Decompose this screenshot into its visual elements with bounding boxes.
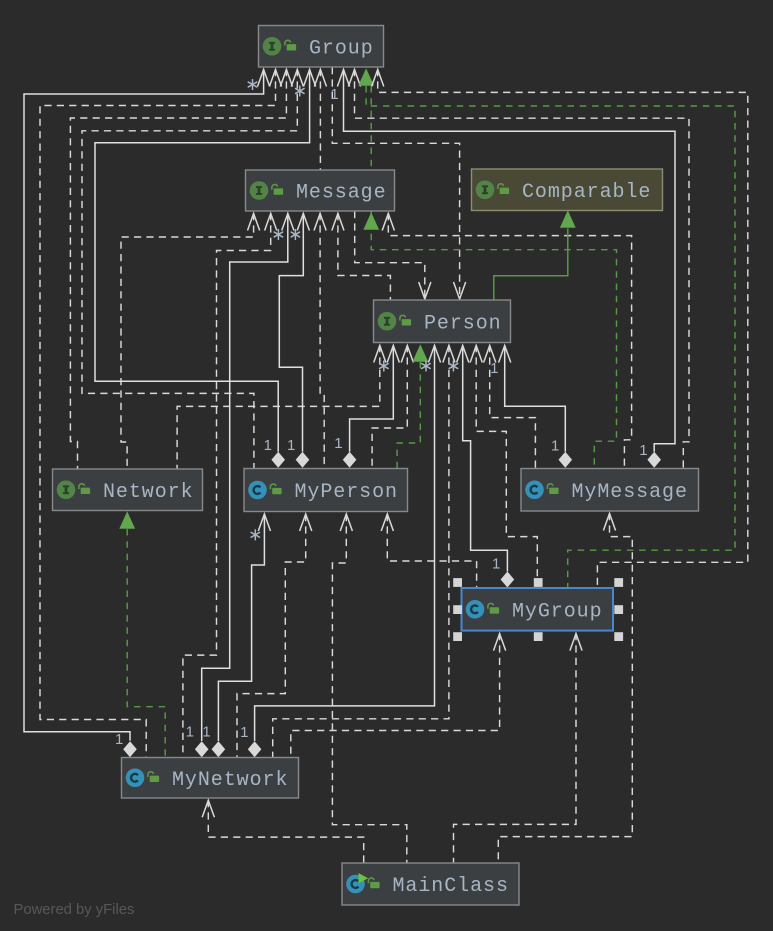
svg-text:1: 1 <box>186 724 194 741</box>
svg-text:1: 1 <box>490 360 498 377</box>
edge Person-Comparable green realization, solid triangle at Comparable <box>494 229 568 301</box>
edge MainClass-MyPerson dashed dependency <box>332 514 406 863</box>
svg-text:Powered by yFiles: Powered by yFiles <box>14 902 135 918</box>
multiplicity label * (MyNetwork-Message at Message end) <box>274 230 282 240</box>
svg-text:Network: Network <box>103 481 194 504</box>
edge Message-Group dashed dependency <box>319 69 321 170</box>
selection handles around MyGroup <box>453 578 623 641</box>
node MyPerson (class) <box>244 469 408 512</box>
edge MainClass-MyGroup dashed dependency <box>454 633 577 863</box>
node Network (interface) <box>53 469 203 511</box>
edge MyMessage-Person dashed dependency <box>490 345 536 468</box>
svg-text:1: 1 <box>240 724 248 741</box>
svg-text:Message: Message <box>296 182 387 205</box>
edge MyPerson-Message dashed dependency <box>320 213 324 468</box>
edge MyNetwork-Person dashed dependency <box>273 345 449 758</box>
node Person (interface) <box>374 300 511 343</box>
node Group (interface) <box>259 26 384 68</box>
edge MyGroup-Person solid aggregation: diamond at MyGroup <box>463 345 508 572</box>
edge MyPerson-Group solid aggregation: diamond at MyPerson <box>95 69 310 452</box>
node MyGroup (selected class) <box>462 588 614 631</box>
edge MyNetwork-MyGroup dashed dependency <box>291 633 500 758</box>
edge MyMessage-Group dashed dependency <box>355 69 690 468</box>
edge Message-Person dashed association, arrow into Person top <box>355 211 425 299</box>
svg-text:MyPerson: MyPerson <box>295 481 398 504</box>
multiplicity label * (MyNetwork-Person at Person end) <box>449 361 457 371</box>
multiplicity label * (MyPerson-Group at Group end) <box>296 86 304 96</box>
node MainClass (main class) <box>342 863 519 905</box>
node MyMessage (class) <box>521 469 699 512</box>
svg-text:1: 1 <box>334 435 342 452</box>
svg-text:1: 1 <box>202 724 210 741</box>
node Comparable (library interface) <box>472 169 663 211</box>
edge MyNetwork-MyPerson solid aggregation: diamond at MyNetwork <box>218 514 264 741</box>
edge MainClass-MyMessage dashed dependency <box>498 513 632 863</box>
svg-text:1: 1 <box>115 731 123 748</box>
edge MyNetwork-Message solid aggregation: diamond at MyNetwork <box>202 213 288 741</box>
edge Network-Message dashed dependency <box>121 213 254 469</box>
multiplicity label * (MyNetwork-MyPerson at MyPerson end) <box>251 530 259 540</box>
edge MyPerson-Group dashed dependency <box>82 69 297 468</box>
svg-text:MainClass: MainClass <box>393 875 509 898</box>
edge MyPerson-Person green realization, solid triangle at Person <box>397 362 420 468</box>
svg-text:1: 1 <box>492 555 500 572</box>
svg-text:MyMessage: MyMessage <box>572 481 688 504</box>
svg-text:1: 1 <box>330 86 338 103</box>
edge MyMessage-Person solid aggregation: diamond at MyMessage <box>505 345 566 452</box>
edge MyMessage-Message dashed dependency <box>388 213 631 468</box>
edge MainClass-MyNetwork dashed dependency <box>208 800 363 863</box>
edge MyNetwork-Message dashed dependency <box>183 213 271 758</box>
svg-text:1: 1 <box>287 437 295 454</box>
multiplicity label * (Network-Person at Person end) <box>380 361 388 371</box>
node MyNetwork (class) <box>122 758 299 799</box>
edge MyPerson-Message solid aggregation: diamond at MyPerson <box>279 213 303 452</box>
edge Network-Group dashed dependency <box>70 69 286 469</box>
edge Group-Person dashed association, arrow into Person top <box>332 67 459 299</box>
svg-text:1: 1 <box>551 437 559 454</box>
edge MyGroup-Group dashed dependency <box>378 69 748 588</box>
edge MyNetwork-MyPerson dashed dependency <box>237 514 306 758</box>
node Message (interface) <box>246 170 395 211</box>
edge MyGroup-Group green realization, solid triangle at Group <box>366 86 735 588</box>
edge MyPerson-Person solid aggregation: diamond at MyPerson <box>350 345 394 452</box>
edge MyGroup-Person dashed dependency <box>476 345 537 588</box>
svg-text:1: 1 <box>639 442 647 459</box>
svg-text:MyGroup: MyGroup <box>512 601 603 624</box>
edge MyMessage-Group solid aggregation: diamond at MyMessage <box>344 69 676 452</box>
svg-text:1: 1 <box>264 437 272 454</box>
edge MyNetwork-Person solid aggregation: diamond at MyNetwork <box>255 345 435 741</box>
svg-text:Person: Person <box>424 312 502 335</box>
edge MyPerson-Person dashed dependency <box>372 345 407 468</box>
edge MyGroup-MyPerson dashed dependency <box>387 514 476 588</box>
edge MyMessage-Message green realization, solid triangle at Message <box>371 86 616 468</box>
edge MyNetwork-Network green realization, solid triangle at Network <box>127 529 165 758</box>
edge Person-Message dashed dependency (starts at Person top) <box>338 213 391 300</box>
svg-text:Comparable: Comparable <box>522 181 651 204</box>
multiplicity label * (MyNetwork-Message agg at Message end) <box>291 230 299 240</box>
multiplicity label * (MyNetwork-Group at Group end) <box>248 80 256 90</box>
svg-text:MyNetwork: MyNetwork <box>172 769 288 792</box>
edge MyNetwork-Group solid aggregation: diamond at MyNetwork, open arrow at Group <box>24 69 264 741</box>
edge Network-Person dashed dependency <box>177 345 380 469</box>
svg-text:Group: Group <box>309 37 374 60</box>
edge MyNetwork-Group dashed dependency <box>40 69 276 758</box>
multiplicity label * (MyPerson-Person at Person end) <box>422 361 430 371</box>
